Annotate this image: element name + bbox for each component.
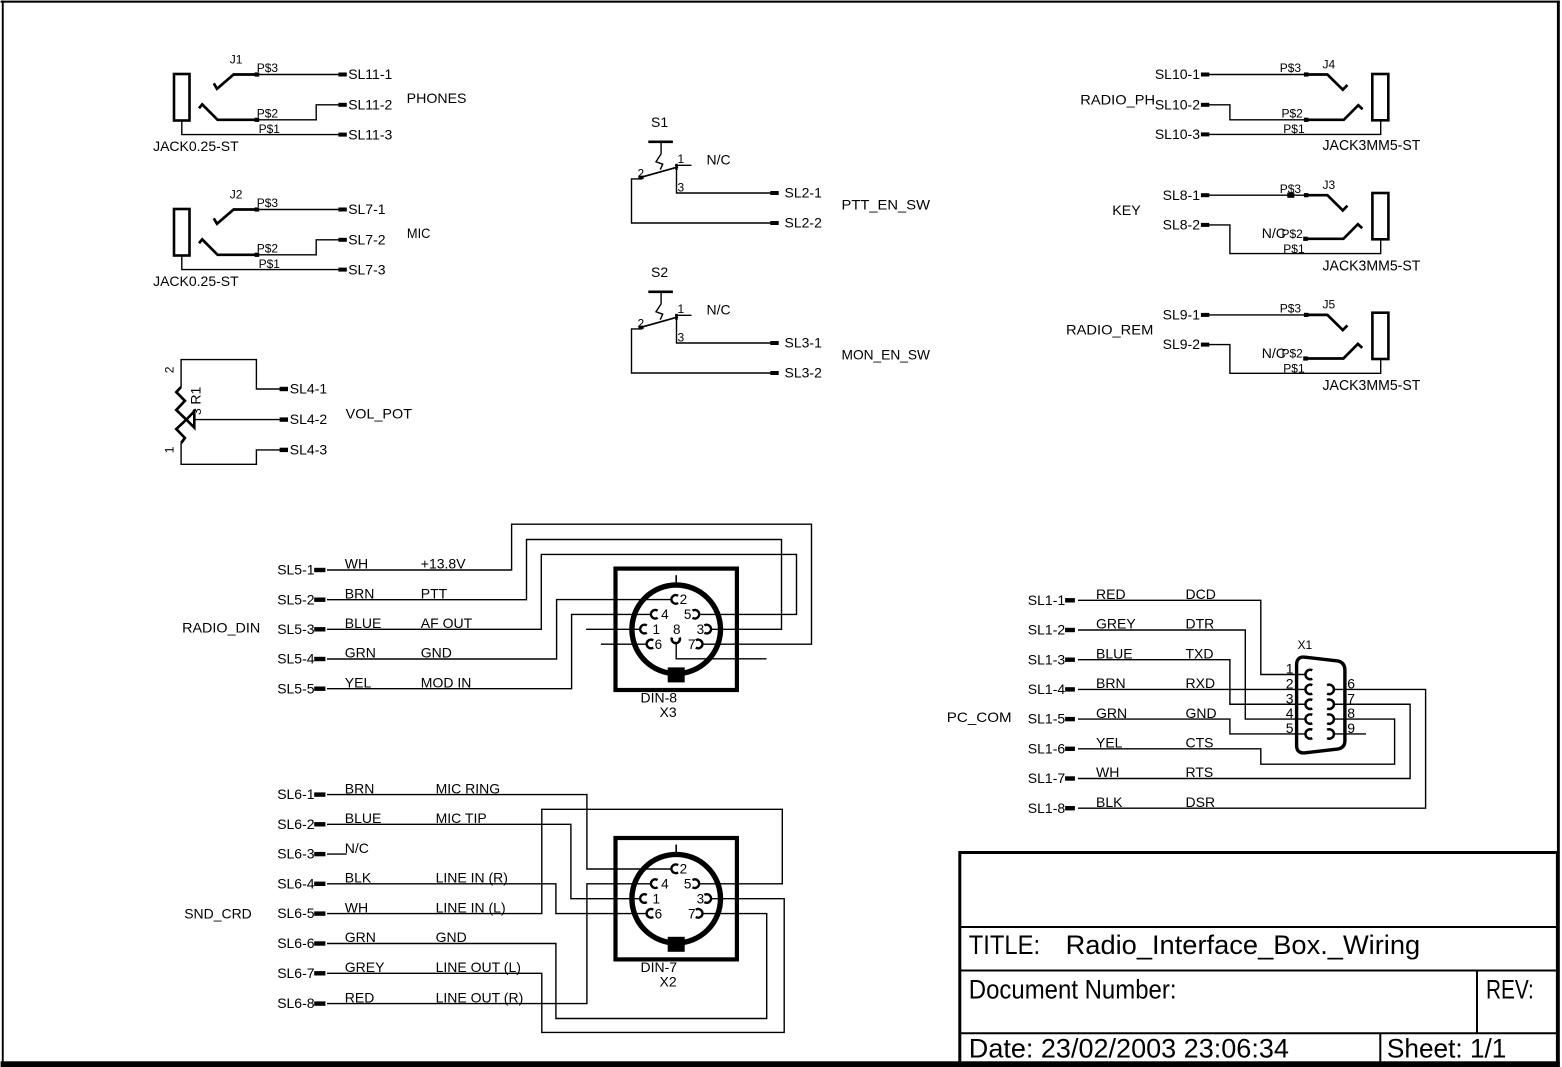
pin SL6-1 — [314, 792, 325, 796]
wire R1 pin2 to SL4-1 — [181, 360, 280, 389]
wire SL6-1 BRN MIC RING to X2 pin 2 — [327, 795, 672, 869]
title block Sheet divider — [1379, 1033, 1381, 1063]
page border frame top — [1, 1, 1560, 3]
svg-text:RADIO_DIN: RADIO_DIN — [182, 620, 260, 636]
svg-text:1: 1 — [678, 302, 685, 316]
svg-text:SL4-3: SL4-3 — [290, 441, 328, 457]
svg-text:SL7-1: SL7-1 — [348, 201, 386, 217]
pin 7 of X3 DIN-8 — [696, 640, 703, 649]
svg-text:SL2-2: SL2-2 — [785, 215, 823, 231]
pin SL4-3 — [280, 448, 288, 452]
title block REV divider — [1476, 971, 1478, 1034]
switch S2 spring — [656, 304, 663, 320]
svg-text:Radio_Interface_Box._Wiring: Radio_Interface_Box._Wiring — [1066, 930, 1421, 960]
connector X3 DIN-8 top index tick — [675, 575, 677, 584]
svg-text:SL6-1: SL6-1 — [277, 786, 315, 802]
wire SL8-2 to J3 sleeve — [1209, 225, 1381, 254]
svg-text:BRN: BRN — [1096, 675, 1126, 691]
connector X2 DIN-7 top index tick — [675, 845, 677, 854]
connector J3 tip contact P$3 — [1306, 195, 1347, 210]
svg-text:KEY: KEY — [1112, 202, 1141, 218]
svg-text:8: 8 — [1347, 705, 1355, 721]
pin 2 of X3 DIN-8 — [671, 595, 678, 604]
svg-text:SL10-3: SL10-3 — [1155, 126, 1200, 142]
svg-text:P$3: P$3 — [1280, 61, 1302, 75]
svg-text:RADIO_REM: RADIO_REM — [1066, 322, 1153, 338]
svg-text:1: 1 — [1286, 661, 1294, 677]
svg-text:P$2: P$2 — [257, 242, 279, 256]
svg-text:SL11-2: SL11-2 — [348, 97, 392, 113]
wire SL1-5 GRN GND to X1 pin 5 — [1078, 719, 1305, 734]
svg-text:JACK0.25-ST: JACK0.25-ST — [153, 138, 239, 154]
pin SL6-6 — [314, 941, 325, 945]
svg-text:SL11-3: SL11-3 — [348, 126, 392, 142]
svg-text:4: 4 — [1286, 705, 1294, 721]
connector X2 DIN-7 outer square — [616, 838, 737, 959]
wire stub X3 pin 8 — [676, 643, 766, 659]
svg-text:TITLE:: TITLE: — [969, 930, 1040, 960]
svg-text:Date: 23/02/2003 23:06:34: Date: 23/02/2003 23:06:34 — [969, 1033, 1289, 1063]
connector J3 jack body — [1372, 193, 1388, 239]
svg-text:1: 1 — [678, 152, 685, 166]
wire J2 sleeve to SL7-3 — [182, 255, 339, 269]
svg-text:N/C: N/C — [345, 840, 369, 856]
svg-text:SL1-7: SL1-7 — [1028, 770, 1066, 786]
wire J1 tip to SL11-1 — [257, 74, 339, 76]
wire J2 ring to SL7-2 — [257, 240, 339, 255]
svg-text:Sheet: 1/1: Sheet: 1/1 — [1387, 1033, 1507, 1063]
wire SL1-3 BLUE TXD to X1 pin 3 — [1078, 660, 1305, 705]
svg-text:P$1: P$1 — [1283, 122, 1305, 136]
connector J2 jack body — [174, 209, 190, 256]
connector X1 DB9 outline — [1297, 657, 1345, 753]
pin SL10-1 — [1201, 73, 1209, 77]
wire SL6-6 GRN GND to X2 pin 7 — [327, 914, 767, 1019]
svg-text:2: 2 — [680, 592, 688, 607]
connector J2 tip contact P$3 — [214, 210, 257, 224]
pin 4 of X2 DIN-7 — [651, 879, 658, 888]
svg-text:2: 2 — [680, 862, 688, 877]
pin 3 of X1 — [1305, 700, 1312, 709]
svg-text:P$3: P$3 — [1280, 302, 1302, 316]
svg-text:J2: J2 — [230, 187, 243, 201]
svg-text:REV:: REV: — [1486, 975, 1534, 1005]
svg-text:RXD: RXD — [1186, 675, 1216, 691]
svg-text:3: 3 — [678, 331, 685, 345]
wire SL9-1 to J5 tip — [1209, 314, 1306, 316]
wire SL5-3 BLUE AF OUT to X3 pin 5 — [327, 554, 797, 629]
wire SL10-2 to J4 ring — [1209, 105, 1306, 120]
svg-text:SL10-1: SL10-1 — [1155, 66, 1200, 82]
switch S1 actuator stem — [660, 142, 662, 154]
pin SL10-3 — [1201, 132, 1209, 136]
svg-text:PHONES: PHONES — [407, 90, 467, 106]
wire SL1-6 YEL CTS to X1 pin 8 — [1078, 719, 1395, 764]
wire SL6-8 RED LINE OUT (R) to X2 pin 4 — [327, 884, 651, 1004]
pin SL1-8 — [1065, 806, 1075, 810]
connector X2 DIN-7 bottom key notch — [668, 937, 685, 952]
pin SL4-1 — [280, 387, 288, 391]
svg-text:J1: J1 — [230, 52, 243, 66]
svg-text:SL5-1: SL5-1 — [277, 562, 315, 578]
switch S1 actuator bar — [648, 140, 673, 143]
svg-text:6: 6 — [655, 906, 663, 921]
switch S1 lever left contact tick — [639, 176, 644, 180]
svg-text:3: 3 — [697, 891, 705, 906]
svg-text:SL7-3: SL7-3 — [348, 261, 386, 277]
pin SL8-1 — [1201, 193, 1209, 197]
pin SL2-1 — [770, 191, 778, 195]
wire R1 pin1 to SL4-3 — [181, 443, 280, 464]
pin 3 of X3 DIN-8 — [704, 625, 711, 634]
svg-text:SL6-7: SL6-7 — [277, 965, 315, 981]
pin SL5-3 — [314, 627, 325, 631]
svg-text:SL5-2: SL5-2 — [277, 591, 315, 607]
pin 5 of X2 DIN-7 — [693, 879, 700, 888]
wire SL1-1 RED DCD to X1 pin 1 — [1078, 600, 1305, 674]
svg-text:VOL_POT: VOL_POT — [346, 405, 413, 421]
pin SL6-2 — [314, 822, 325, 826]
svg-text:X2: X2 — [660, 973, 677, 989]
svg-text:P$1: P$1 — [1283, 362, 1305, 376]
connector J4 jack body — [1372, 74, 1388, 120]
svg-text:2: 2 — [163, 366, 177, 373]
svg-text:P$2: P$2 — [1282, 107, 1304, 121]
connector J2 ring contact P$2 — [199, 239, 257, 254]
svg-text:SL5-5: SL5-5 — [277, 680, 315, 696]
svg-text:MIC: MIC — [407, 225, 431, 241]
pin SL2-2 — [770, 221, 778, 225]
title block divider above Date row — [960, 1032, 1558, 1034]
pin SL6-7 — [314, 971, 325, 975]
pin SL11-3 — [338, 133, 346, 137]
pin SL6-4 — [314, 882, 325, 886]
svg-text:S2: S2 — [651, 264, 668, 280]
svg-text:P$1: P$1 — [259, 257, 281, 271]
svg-text:JACK3MM5-ST: JACK3MM5-ST — [1323, 378, 1421, 394]
svg-text:1: 1 — [653, 891, 661, 906]
wire SL6-5 WH LINE IN (L) to X2 pin 5 — [327, 809, 782, 913]
svg-text:5: 5 — [684, 607, 692, 622]
pin 4 of X3 DIN-8 — [651, 610, 658, 619]
svg-text:JACK3MM5-ST: JACK3MM5-ST — [1323, 258, 1421, 274]
svg-text:P$2: P$2 — [1282, 347, 1304, 361]
svg-text:3: 3 — [697, 622, 705, 637]
svg-text:P$2: P$2 — [1282, 227, 1304, 241]
wire SL10-3 to J4 sleeve — [1209, 120, 1381, 134]
pin SL1-4 — [1065, 687, 1075, 691]
svg-text:7: 7 — [688, 637, 696, 652]
svg-text:SL1-5: SL1-5 — [1028, 711, 1066, 727]
svg-text:SL1-8: SL1-8 — [1028, 800, 1066, 816]
svg-text:JACK0.25-ST: JACK0.25-ST — [153, 273, 239, 289]
wire stub X3 pin 6 — [601, 643, 647, 645]
svg-text:SL6-2: SL6-2 — [277, 816, 315, 832]
svg-text:SL1-6: SL1-6 — [1028, 740, 1066, 756]
wire SL5-5 YEL MOD IN to X3 pin 4 — [327, 614, 651, 688]
svg-text:SL4-2: SL4-2 — [290, 411, 328, 427]
svg-text:P$3: P$3 — [257, 61, 279, 75]
wire stub X1 pin 9 — [1335, 733, 1366, 735]
pin SL3-1 — [770, 341, 778, 345]
wire SL6-2 BLUE MIC TIP to X2 pin 1 — [327, 824, 641, 898]
pin SL9-2 — [1201, 343, 1209, 347]
wire S1 pin 2 to SL2-2 — [632, 179, 771, 223]
svg-text:SL1-3: SL1-3 — [1028, 651, 1066, 667]
svg-text:PC_COM: PC_COM — [947, 709, 1012, 725]
switch S2 pin 1 stub N/C — [675, 314, 692, 316]
pin SL6-8 — [314, 1001, 325, 1005]
svg-text:R1: R1 — [188, 387, 204, 405]
pin SL7-2 — [338, 238, 346, 242]
pin SL5-4 — [314, 657, 325, 661]
switch S2 actuator bar — [648, 290, 673, 293]
pin 1 of X2 DIN-7 — [640, 894, 647, 903]
svg-text:5: 5 — [684, 877, 692, 892]
svg-text:SL11-1: SL11-1 — [348, 66, 392, 82]
wire J2 tip to SL7-1 — [257, 209, 339, 211]
wire SL9-2 to J5 sleeve — [1209, 345, 1381, 374]
svg-text:8: 8 — [673, 622, 681, 637]
switch S1 lever — [640, 167, 678, 178]
pin SL5-2 — [314, 598, 325, 602]
svg-text:SL8-1: SL8-1 — [1163, 187, 1201, 203]
svg-text:SL5-4: SL5-4 — [277, 651, 315, 667]
pin 4 of X1 — [1305, 714, 1312, 723]
svg-text:1: 1 — [653, 622, 661, 637]
svg-text:7: 7 — [1347, 690, 1355, 706]
wire SL5-1 WH +13.8V to X3 pin 7 — [327, 524, 812, 644]
svg-text:N/C: N/C — [707, 302, 731, 318]
pin 2 of X1 — [1305, 685, 1312, 694]
connector J5 jack body — [1372, 313, 1388, 359]
pin SL1-3 — [1065, 658, 1075, 662]
svg-text:2: 2 — [1286, 676, 1294, 692]
svg-text:JACK3MM5-ST: JACK3MM5-ST — [1323, 138, 1421, 154]
svg-text:SL9-2: SL9-2 — [1163, 336, 1201, 352]
pin 5 of X1 — [1305, 729, 1312, 738]
pin 6 of X1 — [1327, 685, 1334, 694]
switch S2 lever right contact tick — [675, 314, 677, 320]
junction at J3 tip wire — [1287, 193, 1294, 198]
page border frame right — [1557, 1, 1560, 1067]
switch S1 spring — [656, 154, 663, 170]
svg-text:SL6-6: SL6-6 — [277, 935, 315, 951]
pin 9 of X1 — [1327, 729, 1334, 738]
connector J3 ring contact P$2 not connected — [1305, 224, 1362, 239]
pin 1 of X1 — [1305, 670, 1312, 679]
wire SL1-7 WH RTS to X1 pin 7 — [1078, 704, 1410, 778]
title block outer box — [960, 853, 1558, 1064]
wire SL5-2 BRN PTT to X3 pin 3 — [327, 540, 782, 630]
pin SL3-2 — [770, 371, 778, 375]
connector X3 DIN-8 outer square — [616, 569, 737, 690]
svg-text:SL1-1: SL1-1 — [1028, 592, 1066, 608]
svg-text:P$3: P$3 — [257, 196, 279, 210]
switch S2 lever left contact tick — [639, 326, 644, 330]
pin SL4-2 — [280, 417, 288, 421]
svg-text:2: 2 — [638, 317, 645, 331]
pin SL7-1 — [338, 208, 346, 212]
svg-text:SL6-4: SL6-4 — [277, 875, 315, 891]
switch S1 pin 1 stub N/C — [675, 164, 692, 166]
pin SL1-5 — [1065, 717, 1075, 721]
svg-text:SL9-1: SL9-1 — [1163, 307, 1201, 323]
svg-text:MON_EN_SW: MON_EN_SW — [842, 347, 931, 363]
svg-text:9: 9 — [1347, 720, 1355, 736]
connector J5 tip contact P$3 — [1306, 315, 1347, 330]
svg-text:SL10-2: SL10-2 — [1155, 97, 1200, 113]
connector J1 jack body — [174, 74, 190, 121]
svg-text:SL1-4: SL1-4 — [1028, 681, 1066, 697]
wire J1 sleeve to SL11-3 — [182, 120, 339, 134]
svg-text:2: 2 — [638, 167, 645, 181]
svg-text:3: 3 — [190, 408, 204, 415]
pin 2 of X2 DIN-7 — [671, 864, 678, 873]
svg-text:J4: J4 — [1323, 57, 1336, 71]
connector X3 DIN-8 circle — [632, 585, 721, 674]
wire S2 pin 3 to SL3-1 — [677, 318, 771, 344]
pin 5 of X3 DIN-8 — [693, 610, 700, 619]
switch S2 actuator stem — [660, 292, 662, 304]
wire SL10-1 to J4 tip — [1209, 74, 1306, 76]
svg-text:SL7-2: SL7-2 — [348, 232, 386, 248]
svg-text:3: 3 — [678, 181, 685, 195]
wire R1 wiper to SL4-2 — [194, 419, 280, 421]
pin 7 of X1 — [1327, 700, 1334, 709]
svg-text:SL6-8: SL6-8 — [277, 995, 315, 1011]
svg-text:SL4-1: SL4-1 — [290, 380, 328, 396]
switch S2 lever — [640, 317, 678, 328]
wire SL1-2 GREY DTR to X1 pin 4 — [1078, 630, 1305, 719]
svg-text:SL1-2: SL1-2 — [1028, 622, 1066, 638]
title block divider below TITLE row — [960, 970, 1558, 972]
connector X3 DIN-8 bottom key notch — [668, 667, 685, 682]
page border frame left — [2, 1, 4, 1067]
connector X2 DIN-7 circle — [632, 854, 721, 943]
svg-text:SL3-1: SL3-1 — [785, 335, 823, 351]
pin SL11-1 — [338, 73, 346, 77]
pin SL5-1 — [314, 568, 325, 572]
svg-text:SL8-2: SL8-2 — [1163, 217, 1201, 233]
potentiometer R1 resistor zigzag — [176, 387, 186, 443]
svg-text:SL5-3: SL5-3 — [277, 621, 315, 637]
svg-text:SL3-2: SL3-2 — [785, 365, 823, 381]
svg-text:SL6-5: SL6-5 — [277, 905, 315, 921]
page border frame bottom — [1, 1061, 1560, 1067]
pin SL11-2 — [338, 103, 346, 107]
pin 8 of X1 — [1327, 714, 1334, 723]
svg-text:J3: J3 — [1323, 178, 1336, 192]
svg-text:J5: J5 — [1323, 298, 1336, 312]
pin 6 of X2 DIN-7 — [647, 909, 654, 918]
pin SL7-3 — [338, 268, 346, 272]
wire S2 pin 2 to SL3-2 — [632, 329, 771, 373]
pin 3 of X2 DIN-7 — [704, 894, 711, 903]
svg-text:S1: S1 — [651, 114, 668, 130]
wire stub SL6-3 N/C — [327, 853, 347, 855]
svg-text:P$2: P$2 — [257, 107, 279, 121]
wire SL5-4 GRN GND to X3 pin 2 — [327, 600, 672, 659]
svg-text:SND_CRD: SND_CRD — [184, 905, 252, 921]
wire SL1-8 BLK DSR to X1 pin 6 — [1078, 689, 1426, 808]
svg-text:PTT_EN_SW: PTT_EN_SW — [842, 197, 931, 213]
pin 6 of X3 DIN-8 — [647, 640, 654, 649]
connector J5 ring contact P$2 not connected — [1305, 344, 1362, 359]
svg-text:SL2-1: SL2-1 — [785, 185, 823, 201]
svg-text:P$1: P$1 — [259, 122, 281, 136]
wire stub X3 pin 1 — [586, 628, 641, 630]
wire J1 ring to SL11-2 — [257, 105, 339, 120]
wire SL8-1 to J3 tip — [1209, 194, 1306, 196]
pin SL1-1 — [1065, 598, 1075, 602]
svg-text:6: 6 — [655, 637, 663, 652]
pin 7 of X2 DIN-7 — [696, 909, 703, 918]
title block divider above TITLE row — [960, 926, 1558, 928]
connector J4 tip contact P$3 — [1306, 75, 1347, 90]
pin SL9-1 — [1201, 313, 1209, 317]
pin SL6-5 — [314, 911, 325, 915]
connector J1 ring contact P$2 — [199, 104, 257, 119]
svg-text:6: 6 — [1347, 676, 1355, 692]
wire SL6-7 GREY LINE OUT (L) to X2 pin 3 — [327, 899, 784, 1033]
svg-text:7: 7 — [688, 906, 696, 921]
connector J1 tip contact P$3 — [214, 75, 257, 89]
svg-text:SL6-3: SL6-3 — [277, 846, 315, 862]
wire S1 pin 3 to SL2-1 — [677, 168, 771, 194]
pin SL6-3 — [314, 852, 325, 856]
svg-text:X1: X1 — [1298, 638, 1313, 652]
pin SL10-2 — [1201, 103, 1209, 107]
svg-text:X3: X3 — [660, 704, 677, 720]
svg-text:N/C: N/C — [707, 152, 731, 168]
svg-text:5: 5 — [1286, 720, 1294, 736]
pin SL1-2 — [1065, 628, 1075, 632]
svg-text:3: 3 — [1286, 690, 1294, 706]
svg-text:Document Number:: Document Number: — [969, 975, 1177, 1005]
svg-text:4: 4 — [661, 607, 669, 622]
wire SL1-4 BRN RXD to X1 pin 2 — [1078, 688, 1305, 690]
wire SL6-4 BLK LINE IN (R) to X2 pin 6 — [327, 884, 647, 914]
pin 1 of X3 DIN-8 — [640, 625, 647, 634]
pin SL1-6 — [1065, 747, 1075, 751]
pin SL8-2 — [1201, 223, 1209, 227]
connector J4 ring contact P$2 — [1306, 105, 1363, 120]
svg-text:P$1: P$1 — [1283, 242, 1305, 256]
switch S1 lever right contact tick — [675, 164, 677, 170]
potentiometer R1 wiper arrow — [186, 411, 194, 427]
pin SL5-5 — [314, 687, 325, 691]
svg-text:RADIO_PH: RADIO_PH — [1080, 92, 1155, 108]
svg-text:1: 1 — [163, 446, 177, 453]
pin SL1-7 — [1065, 776, 1075, 780]
svg-text:4: 4 — [661, 877, 669, 892]
